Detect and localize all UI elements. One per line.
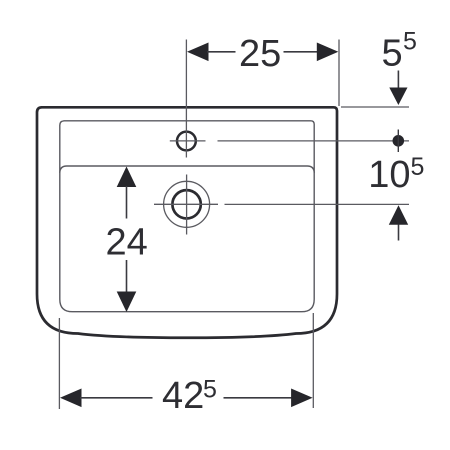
svg-text:5: 5 (203, 375, 217, 403)
dim 42.5: left arrow (60, 389, 82, 408)
svg-text:5: 5 (411, 153, 425, 181)
dim 25: line left segment (207, 51, 236, 53)
drain crosshair vertical (186, 175, 188, 235)
svg-text:5: 5 (382, 33, 403, 75)
dim 5.5: down arrow shaft (397, 71, 399, 89)
dim 42.5: line right segment (224, 397, 294, 399)
dim marker dot on faucet line (393, 135, 405, 147)
dim 25: right extension line (338, 40, 340, 107)
dim 42.5: right arrow (291, 389, 313, 408)
dim 42.5: line left segment (80, 397, 153, 399)
dim 42.5: left extension line (58, 318, 60, 409)
dim 24: lower shaft (126, 260, 128, 294)
faucet centerline vertical (25 dim left extension) (185, 40, 187, 158)
dim 24: down arrow head (117, 292, 137, 313)
dim 10.5: up arrow shaft (398, 225, 400, 241)
drain hole inner circle (172, 190, 200, 218)
svg-text:42: 42 (162, 375, 204, 417)
svg-text:10: 10 (368, 154, 410, 196)
dim 25: right arrow (317, 43, 339, 62)
dim marker dot tick (397, 130, 399, 153)
faucet hole crosshair horizontal (170, 140, 206, 142)
dim 5.5: down arrow head (389, 88, 407, 106)
drain hole outer circle (164, 181, 210, 227)
top edge extension line (right) (341, 106, 409, 108)
basin outer outline (37, 107, 337, 337)
faucet leader line to right (218, 140, 410, 142)
dim 25: line right segment (284, 51, 319, 53)
dim 24: upper shaft (126, 186, 128, 219)
inner bowl top edge (60, 166, 314, 173)
svg-text:24: 24 (106, 221, 148, 263)
svg-text:5: 5 (403, 28, 417, 56)
dim 24: up arrow head (117, 167, 137, 188)
basin inner rim (60, 121, 314, 312)
dim 25: left arrow (187, 43, 209, 62)
drain crosshair horizontal (154, 203, 218, 205)
faucet hole (177, 132, 196, 151)
dim 10.5: up arrow head (389, 205, 408, 225)
dim 42.5: right extension line (312, 313, 314, 408)
svg-text:25: 25 (239, 33, 281, 75)
drain leader line to right (225, 203, 410, 205)
